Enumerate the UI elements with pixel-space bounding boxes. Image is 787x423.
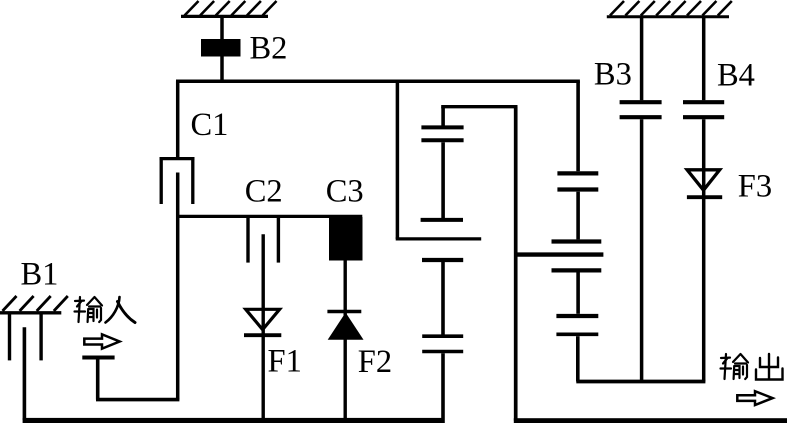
svg-text:C3: C3 bbox=[326, 174, 364, 210]
wire: B1 hub down to bus bbox=[23, 327, 27, 420]
svg-text:B4: B4 bbox=[717, 58, 755, 94]
wire: top bus down at planetary 2 bbox=[576, 81, 580, 171]
wire: C3 down through F2 to bus bbox=[344, 261, 347, 421]
gear mesh plate bbox=[552, 239, 602, 243]
wire: clutch feed line C2/C3 bbox=[176, 215, 362, 218]
ground (fixed housing) at B1 bbox=[0, 296, 68, 313]
wire: C2 hub down through F1 to bus bbox=[262, 234, 265, 420]
gear mesh plate bbox=[556, 332, 598, 336]
wire: carrier arm planetary 1 bbox=[396, 237, 482, 240]
wire: vertical to output bus bbox=[514, 107, 518, 421]
one-way clutch F2 (solid triangle) bbox=[328, 313, 364, 340]
F3 bar bbox=[687, 195, 722, 199]
ground (fixed housing) top-right bbox=[607, 1, 732, 17]
wire: C1 hub down to input loop bbox=[176, 173, 180, 400]
brake B4 plate bbox=[683, 100, 724, 104]
gear mesh plate bbox=[557, 171, 598, 175]
clutch C1 (drum bracket) bbox=[160, 157, 195, 204]
svg-text:B1: B1 bbox=[21, 257, 59, 293]
label output 输出 (drawn glyphs) bbox=[721, 354, 749, 379]
wire: B3 stem lower bbox=[640, 119, 644, 381]
svg-text:C2: C2 bbox=[245, 174, 283, 210]
gear mesh plate bbox=[421, 138, 463, 142]
svg-text:F2: F2 bbox=[358, 344, 392, 380]
brake B3 plate bbox=[620, 115, 662, 119]
wire: top bus bbox=[176, 79, 580, 83]
brake B1 (plates) bbox=[8, 313, 11, 361]
svg-text:B3: B3 bbox=[594, 57, 632, 93]
gear mesh plate bbox=[422, 350, 463, 354]
one-way clutch F1 (open triangle) bbox=[246, 309, 280, 329]
clutch C3 (solid block) bbox=[329, 217, 363, 261]
gear mesh plate bbox=[421, 218, 463, 222]
wire: stem to bus bbox=[441, 353, 445, 423]
wire: input loop bottom bbox=[96, 398, 179, 402]
gear mesh plate bbox=[557, 187, 598, 191]
gear mesh plate bbox=[422, 258, 463, 262]
svg-text:C1: C1 bbox=[191, 107, 229, 143]
gear mesh plate bbox=[422, 334, 463, 338]
gear mesh plate bbox=[421, 125, 463, 129]
gear mesh plate bbox=[552, 268, 602, 272]
wire: mesh stem to carrier bbox=[576, 336, 580, 381]
output arrow bbox=[737, 391, 772, 405]
svg-text:B2: B2 bbox=[250, 31, 288, 67]
brake B3 plate bbox=[620, 100, 662, 104]
wire: B3 stem upper bbox=[640, 17, 644, 101]
wire: B4 stem upper bbox=[702, 17, 706, 101]
brake B2 (solid block) bbox=[201, 39, 241, 57]
wire: stem to gear mesh bbox=[441, 107, 445, 126]
F1 bar bbox=[244, 333, 281, 337]
wire: input shaft down bbox=[96, 358, 100, 400]
wire: bottom bus right (output) bbox=[514, 418, 787, 423]
wire: top bus down to clutch C1 bbox=[176, 81, 180, 158]
svg-text:F3: F3 bbox=[738, 169, 772, 205]
wire: carrier arm planetary 2 bbox=[576, 380, 705, 384]
one-way clutch F2 bar bbox=[327, 310, 361, 313]
one-way clutch F3 (open triangle) bbox=[687, 170, 720, 190]
input shaft bar bbox=[82, 356, 114, 360]
wire: mesh stem bbox=[576, 273, 580, 314]
brake B4 plate bbox=[683, 115, 724, 119]
input arrow bbox=[84, 334, 119, 348]
wire: top bus down at planetary 1 bbox=[396, 81, 400, 239]
ground (fixed housing) top-left bbox=[181, 1, 277, 16]
wire: B4 stem lower through F3 bbox=[702, 119, 706, 381]
wire: ring feed line planetary 1 bbox=[441, 105, 517, 108]
gear mesh plate bbox=[556, 314, 598, 318]
label input 输入 (drawn glyphs) bbox=[75, 297, 103, 322]
wire: ground to B2 to top bus bbox=[220, 16, 224, 82]
wire: mesh stem bbox=[441, 262, 445, 335]
svg-text:F1: F1 bbox=[268, 344, 302, 380]
clutch C2 (plates) bbox=[246, 216, 249, 262]
wire: sun feed line planetary 2 bbox=[514, 252, 603, 256]
wire: bottom bus left bbox=[23, 418, 445, 423]
wire: mesh stem bbox=[441, 142, 445, 218]
wire: mesh stem bbox=[576, 192, 580, 240]
